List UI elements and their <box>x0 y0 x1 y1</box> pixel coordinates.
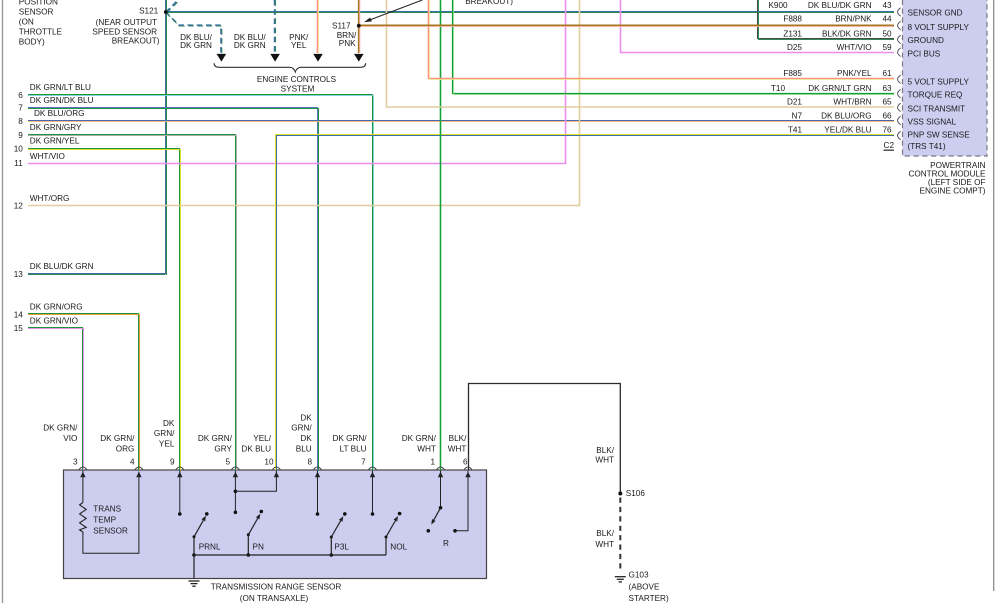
svg-text:DK GRN/: DK GRN/ <box>402 434 437 443</box>
svg-text:(ON TRANSAXLE): (ON TRANSAXLE) <box>240 594 309 603</box>
svg-text:SENSOR GND: SENSOR GND <box>908 9 963 18</box>
svg-text:(NEAR OUTPUT: (NEAR OUTPUT <box>96 18 157 27</box>
svg-text:BLK/: BLK/ <box>596 446 614 455</box>
svg-text:DK GRN: DK GRN <box>180 41 212 50</box>
svg-text:DK BLU/ORG: DK BLU/ORG <box>821 111 872 120</box>
svg-text:S117: S117 <box>332 21 351 30</box>
svg-text:TRANSMISSION RANGE SENSOR: TRANSMISSION RANGE SENSOR <box>211 582 342 591</box>
svg-text:WHT: WHT <box>595 456 614 465</box>
svg-text:YEL/DK BLU: YEL/DK BLU <box>824 126 871 135</box>
svg-text:DK GRN: DK GRN <box>234 41 266 50</box>
svg-text:66: 66 <box>882 111 892 120</box>
svg-text:F888: F888 <box>783 15 802 24</box>
svg-text:TORQUE REQ: TORQUE REQ <box>908 91 963 100</box>
svg-text:C2: C2 <box>884 141 895 150</box>
svg-text:DK GRN/LT GRN: DK GRN/LT GRN <box>808 84 871 93</box>
svg-text:PCI BUS: PCI BUS <box>908 49 941 58</box>
svg-text:S106: S106 <box>626 489 646 498</box>
svg-text:8: 8 <box>307 458 312 467</box>
svg-text:BREAKOUT): BREAKOUT) <box>465 0 513 6</box>
svg-text:BRN/PNK: BRN/PNK <box>835 15 872 24</box>
svg-text:DK GRN/ORG: DK GRN/ORG <box>30 303 83 312</box>
svg-text:GROUND: GROUND <box>908 36 944 45</box>
svg-text:WHT: WHT <box>417 444 436 453</box>
svg-text:DK: DK <box>300 413 312 422</box>
svg-text:DK GRN/: DK GRN/ <box>198 434 233 443</box>
svg-text:50: 50 <box>882 29 892 38</box>
svg-text:GRN/: GRN/ <box>154 429 175 438</box>
svg-text:63: 63 <box>882 84 892 93</box>
svg-text:WHT/BRN: WHT/BRN <box>833 98 871 107</box>
svg-text:4: 4 <box>130 458 135 467</box>
svg-text:YEL/: YEL/ <box>253 434 271 443</box>
svg-text:WHT/ORG: WHT/ORG <box>30 194 70 203</box>
svg-text:THROTTLE: THROTTLE <box>19 28 63 37</box>
svg-text:WHT/VIO: WHT/VIO <box>837 43 872 52</box>
svg-text:PN: PN <box>253 542 264 551</box>
svg-text:DK: DK <box>300 434 312 443</box>
svg-text:BLK/: BLK/ <box>449 434 467 443</box>
svg-text:8 VOLT SUPPLY: 8 VOLT SUPPLY <box>908 23 970 32</box>
svg-text:SYSTEM: SYSTEM <box>281 84 315 93</box>
svg-text:Z131: Z131 <box>783 29 802 38</box>
svg-text:VSS SIGNAL: VSS SIGNAL <box>908 118 957 127</box>
svg-text:(ABOVE: (ABOVE <box>629 582 660 591</box>
svg-text:STARTER): STARTER) <box>629 594 669 603</box>
svg-text:DK GRN/: DK GRN/ <box>332 434 367 443</box>
svg-text:ORG: ORG <box>116 444 135 453</box>
svg-text:9: 9 <box>18 131 23 140</box>
svg-text:DK BLU: DK BLU <box>241 444 271 453</box>
svg-text:VIO: VIO <box>63 434 77 443</box>
svg-text:WHT: WHT <box>448 444 467 453</box>
svg-text:43: 43 <box>882 1 892 10</box>
svg-text:1: 1 <box>430 458 435 467</box>
svg-text:11: 11 <box>14 159 23 168</box>
svg-text:10: 10 <box>14 145 24 154</box>
svg-text:WHT: WHT <box>595 540 614 549</box>
svg-text:F885: F885 <box>783 69 802 78</box>
svg-text:SCI TRANSMIT: SCI TRANSMIT <box>908 104 966 113</box>
svg-text:BLK/: BLK/ <box>596 529 614 538</box>
svg-text:BLU: BLU <box>296 444 312 453</box>
svg-text:PNP SW SENSE: PNP SW SENSE <box>908 131 971 140</box>
svg-text:YEL: YEL <box>291 41 307 50</box>
svg-text:6: 6 <box>463 458 468 467</box>
svg-text:(ON: (ON <box>19 18 34 27</box>
svg-text:3: 3 <box>73 458 78 467</box>
svg-text:DK BLU/DK GRN: DK BLU/DK GRN <box>30 262 94 271</box>
svg-text:D21: D21 <box>787 98 802 107</box>
svg-text:14: 14 <box>14 310 24 319</box>
svg-text:13: 13 <box>14 270 24 279</box>
svg-text:S121: S121 <box>139 7 159 16</box>
svg-text:15: 15 <box>14 324 24 333</box>
svg-text:NOL: NOL <box>390 542 407 551</box>
svg-text:59: 59 <box>882 43 892 52</box>
svg-text:K900: K900 <box>768 1 788 10</box>
svg-text:(TRS T41): (TRS T41) <box>908 142 946 151</box>
svg-text:ENGINE CONTROLS: ENGINE CONTROLS <box>257 75 337 84</box>
svg-text:DK GRN/YEL: DK GRN/YEL <box>30 137 80 146</box>
svg-text:BODY): BODY) <box>19 38 45 47</box>
svg-text:8: 8 <box>18 117 23 126</box>
svg-text:DK BLU/DK GRN: DK BLU/DK GRN <box>808 1 872 10</box>
svg-text:LT BLU: LT BLU <box>340 444 367 453</box>
svg-text:T41: T41 <box>788 126 803 135</box>
svg-text:WHT/VIO: WHT/VIO <box>30 152 65 161</box>
svg-text:65: 65 <box>882 98 892 107</box>
svg-text:TEMP: TEMP <box>93 516 116 525</box>
svg-text:9: 9 <box>170 458 175 467</box>
svg-text:SENSOR: SENSOR <box>19 7 54 16</box>
svg-text:DK: DK <box>163 419 175 428</box>
svg-text:SENSOR: SENSOR <box>93 527 128 536</box>
svg-text:PNK: PNK <box>339 39 356 48</box>
svg-text:PNK/YEL: PNK/YEL <box>837 69 872 78</box>
svg-text:DK GRN/VIO: DK GRN/VIO <box>30 316 78 325</box>
svg-text:DK GRN/LT BLU: DK GRN/LT BLU <box>30 83 91 92</box>
svg-text:DK GRN/: DK GRN/ <box>100 434 135 443</box>
svg-text:44: 44 <box>882 15 892 24</box>
svg-text:GRY: GRY <box>214 444 232 453</box>
svg-text:DK GRN/GRY: DK GRN/GRY <box>30 123 82 132</box>
svg-text:12: 12 <box>14 202 24 211</box>
svg-text:76: 76 <box>882 126 892 135</box>
svg-text:DK BLU/ORG: DK BLU/ORG <box>34 109 85 118</box>
svg-text:10: 10 <box>264 458 274 467</box>
svg-text:G103: G103 <box>629 571 649 580</box>
svg-text:5: 5 <box>225 458 230 467</box>
svg-text:GRN/: GRN/ <box>291 423 312 432</box>
svg-text:R: R <box>443 539 449 548</box>
svg-text:6: 6 <box>18 91 23 100</box>
svg-text:61: 61 <box>882 69 892 78</box>
svg-text:YEL: YEL <box>159 440 175 449</box>
svg-text:SPEED SENSOR: SPEED SENSOR <box>92 27 157 36</box>
svg-text:5 VOLT SUPPLY: 5 VOLT SUPPLY <box>908 78 970 87</box>
svg-text:D25: D25 <box>787 43 802 52</box>
svg-text:7: 7 <box>18 104 23 113</box>
svg-text:P3L: P3L <box>334 542 349 551</box>
svg-text:T10: T10 <box>771 84 786 93</box>
svg-text:TRANS: TRANS <box>93 504 121 513</box>
svg-text:N7: N7 <box>792 111 803 120</box>
svg-text:POSITION: POSITION <box>19 0 58 6</box>
svg-text:BREAKOUT): BREAKOUT) <box>112 37 160 46</box>
svg-text:DK GRN/: DK GRN/ <box>43 423 78 432</box>
svg-text:PRNL: PRNL <box>199 542 221 551</box>
svg-text:DK GRN/DK BLU: DK GRN/DK BLU <box>30 96 94 105</box>
svg-text:BLK/DK GRN: BLK/DK GRN <box>822 29 872 38</box>
svg-text:ENGINE COMPT): ENGINE COMPT) <box>920 186 986 195</box>
svg-text:7: 7 <box>361 458 366 467</box>
